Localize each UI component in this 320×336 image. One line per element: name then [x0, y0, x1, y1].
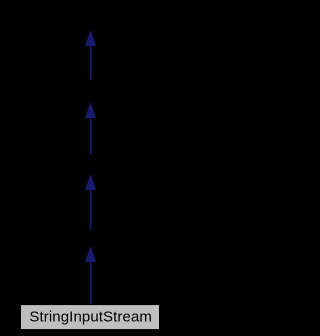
inheritance arrow 3: shaft — [90, 189, 92, 229]
inheritance arrow 4 (bottom): head — [85, 246, 96, 262]
inheritance arrow 1 (topmost): head — [85, 30, 96, 46]
node box: StringInputStream — [21, 305, 160, 330]
inheritance graph: StringInputStream ancestry (doxygen-style) — [0, 0, 181, 336]
svg-text:StringInputStream: StringInputStream — [29, 309, 152, 326]
inheritance arrow 1: shaft — [90, 45, 92, 80]
inheritance arrow 4: shaft — [90, 261, 92, 304]
inheritance arrow 2: shaft — [90, 118, 92, 155]
inheritance arrow 2: head — [85, 102, 96, 118]
inheritance arrow 3: head — [85, 174, 96, 190]
